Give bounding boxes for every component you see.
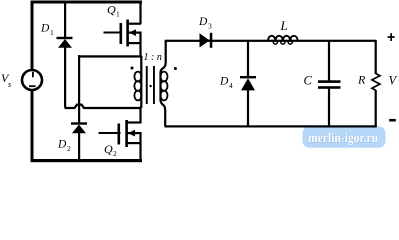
svg-text:merlin-igor.ru: merlin-igor.ru [308, 131, 378, 146]
diode D3 [200, 33, 213, 48]
svg-text:L: L [280, 18, 288, 33]
svg-text:Q: Q [104, 142, 113, 156]
label D4 [219, 76, 233, 91]
svg-text:3: 3 [208, 22, 212, 31]
svg-text:4: 4 [229, 81, 233, 90]
inductor L [268, 36, 298, 44]
wire node A line [78, 55, 142, 57]
transformer secondary winding [161, 41, 168, 127]
wire secondary bottom rail [165, 125, 377, 127]
transistor Q1 [104, 2, 142, 57]
transformer primary winding [134, 56, 142, 108]
svg-text:2: 2 [67, 144, 71, 153]
label plus [388, 33, 395, 41]
svg-text:1: 1 [116, 10, 120, 19]
diode D2 [71, 55, 87, 161]
wire top rail [31, 1, 143, 4]
svg-text:1: 1 [50, 28, 54, 37]
node dot secondary polarity [174, 67, 177, 70]
svg-text:s: s [8, 80, 11, 89]
label D1 [40, 23, 54, 38]
svg-text:R: R [357, 73, 366, 87]
label Vs [1, 71, 11, 89]
svg-text:D: D [219, 76, 229, 88]
transformer core [146, 66, 155, 104]
transistor Q2 [99, 107, 142, 162]
node dot core stray [149, 85, 151, 87]
label Q1 [107, 3, 120, 19]
wire secondary top [165, 40, 377, 42]
label D2 [57, 139, 71, 154]
svg-text:C: C [304, 74, 313, 88]
label Q2 [104, 142, 117, 158]
capacitor C [318, 40, 341, 127]
svg-text:1 : n: 1 : n [144, 52, 162, 63]
wire bottom rail primary [31, 159, 143, 162]
label minus [389, 119, 396, 122]
svg-text:D: D [57, 139, 67, 151]
node dot primary polarity [131, 67, 134, 70]
watermark [303, 126, 386, 147]
wire mid line with hop [65, 105, 142, 108]
wire left rail lower [31, 91, 34, 162]
source Vs [22, 70, 42, 90]
svg-text:D: D [40, 23, 50, 35]
diode D4 [240, 40, 256, 126]
diode D1 [57, 2, 73, 108]
svg-text:2: 2 [113, 149, 117, 158]
label D3 [198, 16, 212, 31]
wire left rail upper [31, 1, 34, 71]
resistor R [372, 40, 380, 127]
svg-text:Q: Q [107, 3, 116, 17]
svg-text:D: D [198, 16, 208, 28]
